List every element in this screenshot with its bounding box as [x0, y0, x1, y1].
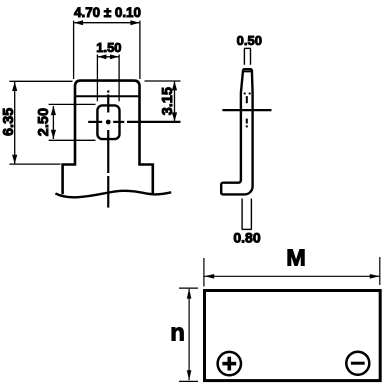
- dimension 4.70 ± 0.10: [74, 21, 140, 79]
- svg-text:0.80: 0.80: [233, 229, 260, 245]
- svg-text:n: n: [170, 320, 185, 347]
- dimension 1.50: [97, 55, 119, 102]
- dimension n: [179, 288, 198, 381]
- svg-text:3.15: 3.15: [160, 87, 176, 115]
- svg-text:0.50: 0.50: [237, 33, 262, 48]
- side vertical centerline: [246, 96, 248, 127]
- dimension 0.50: [244, 48, 251, 64]
- side view tab outline: [221, 69, 252, 194]
- svg-text:2.50: 2.50: [36, 108, 52, 136]
- dimension 0.80: [242, 199, 252, 230]
- svg-text:6.35: 6.35: [1, 108, 17, 136]
- side tip bevel line: [244, 71, 252, 73]
- vertical centerline: [107, 90, 109, 207]
- dimension 3.15: [145, 81, 181, 121]
- side horizontal centerline: [222, 109, 271, 111]
- svg-text:4.70 ± 0.10: 4.70 ± 0.10: [74, 5, 141, 20]
- hole center dot: [106, 120, 111, 125]
- dimension M: [204, 257, 380, 287]
- minus terminal: [346, 352, 369, 375]
- wavy break line: [55, 191, 171, 198]
- dimension 2.50: [49, 104, 96, 140]
- front view tab outline: [63, 81, 153, 195]
- plus terminal: [218, 352, 241, 375]
- svg-text:1.50: 1.50: [96, 40, 121, 55]
- battery outline: [205, 291, 381, 381]
- dimension 6.35: [9, 81, 72, 164]
- terminal hole: [97, 105, 119, 139]
- svg-text:M: M: [286, 244, 306, 270]
- tab bend line: [76, 95, 139, 97]
- horizontal centerline: [88, 121, 180, 123]
